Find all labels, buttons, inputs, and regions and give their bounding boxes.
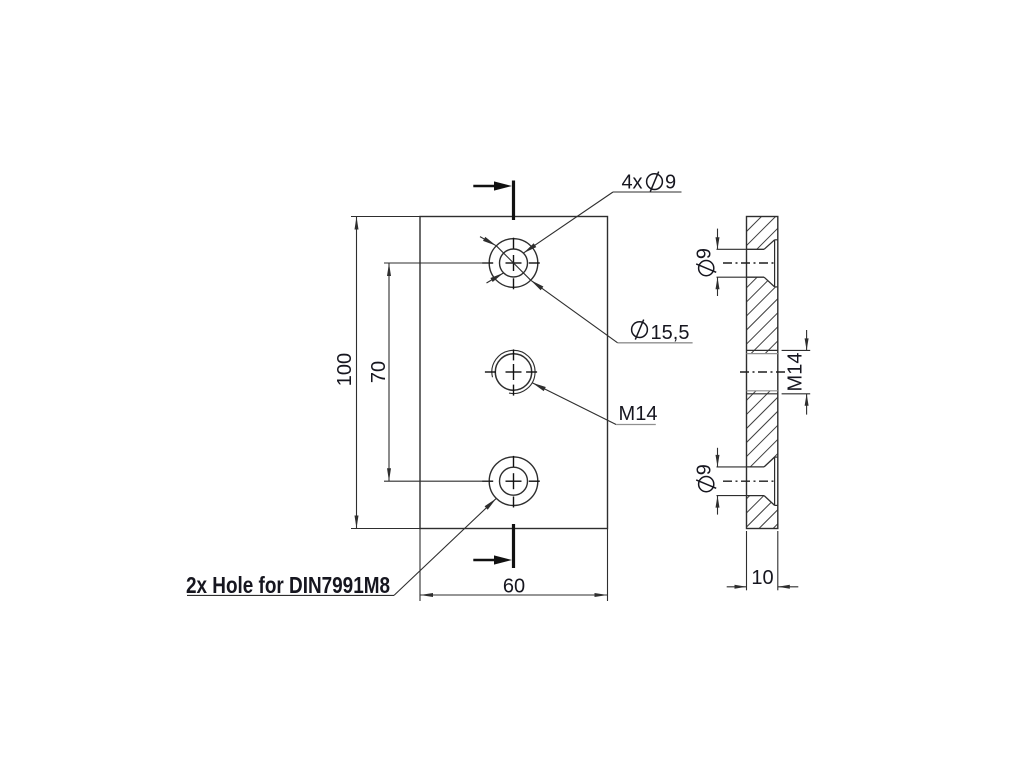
leader 2x hole DIN7991M8 [394,498,496,595]
top hole bore circle d9 [500,249,528,277]
dimension 100 arrow down [355,516,359,529]
dimension M14 side: extension lines [782,349,811,351]
svg-text:60: 60 [503,576,525,598]
leader 2x hole arrow [485,498,497,509]
dimension d9 bottom: dimension line with outside arrows [717,448,719,467]
svg-text:M14: M14 [785,353,807,392]
dimension d15,5 arrow upper-left [483,237,496,246]
side view middle hole centerline [740,371,786,373]
middle hole tap drill circle [495,354,531,390]
dimension 10 arrow right [778,585,790,589]
side view bottom hole bore lines [747,466,765,468]
side view M14 tap drill lines [747,353,778,355]
section cut mark top (thick bar) [512,181,515,221]
diameter symbol of d15,5 [632,320,648,340]
leader M14 front [532,383,616,425]
diameter symbol of 4x d9 [647,172,663,192]
dimension M14 side: dimension line with outside arrows [806,330,808,350]
dimension 100 arrow up [355,217,359,230]
leader 4x d9: dimension line through top hole bore [523,192,613,253]
top hole countersink circle d15.5 [489,239,538,288]
dimension d15,5: line through countersink circle [496,246,530,280]
section view direction arrow bottom [473,559,504,561]
dimension 10 arrow left [735,585,747,589]
side view top hole countersink cone [764,240,775,250]
side view bottom hole countersink cone [764,457,775,467]
svg-text:9: 9 [694,248,716,259]
dimension d9 bottom arrow upper [716,455,720,467]
leader 4x d9 arrow lower [490,273,503,282]
plate outline (front view) [420,217,608,529]
dimension 60 arrow left [420,593,433,597]
dimension 70: extension lines [384,262,489,264]
dimension d15,5 arrow lower-right [531,280,544,290]
dimension d15,5 leader [531,280,618,343]
dimension 70 arrow up [387,263,391,276]
side view top hole bore lines [747,248,765,250]
dimension 60: extension lines [419,529,421,602]
bottom hole countersink circle d15.5 [489,457,538,506]
dimension 60 arrow right [595,593,608,597]
dimension d9 bottom arrow lower [716,496,720,508]
hatching of section [438,200,1024,540]
leader 4x d9 arrow upper [523,243,536,253]
section cut mark bottom (thick bar) [512,524,515,568]
dimension d9 bottom: extension lines [717,466,747,468]
middle hole thread major arc (3/4 circle) [492,350,535,393]
dimension d9 top: dimension line with outside arrows [717,229,719,250]
svg-text:10: 10 [751,567,773,589]
svg-text:100: 100 [334,353,356,386]
leader M14 arrow [532,383,546,391]
svg-text:4x: 4x [621,172,642,194]
svg-text:2x Hole for DIN7991M8: 2x Hole for DIN7991M8 [186,572,390,598]
middle hole center mark [485,349,537,395]
dimension M14 arrow lower [805,394,809,406]
svg-text:9: 9 [665,172,676,194]
svg-text:15,5: 15,5 [651,322,690,344]
dimension d9 top arrow upper [716,237,720,249]
dimension 60: dimension line [420,594,608,596]
side view M14 thread major lines [747,349,778,351]
top hole center mark [482,238,540,290]
svg-text:9: 9 [694,464,716,475]
dimension 100: extension lines [351,216,422,218]
bottom hole center mark [482,456,540,508]
side view top hole countersink cylinder [774,240,776,287]
dimension 70: dimension line [388,263,390,481]
dimension 100: dimension line [356,217,358,529]
dimension d9 top arrow lower [716,277,720,289]
dimension M14 arrow upper [805,338,809,350]
dimension d9 top: extension lines [717,248,747,250]
dimension 10: extension lines [746,531,748,590]
dimension 10: dimension line with outside arrows [727,586,747,588]
svg-text:70: 70 [368,361,390,383]
side view bottom hole countersink cylinder [774,457,776,505]
bottom hole bore circle d9 [500,467,528,495]
side view bottom hole centerline [723,480,776,482]
side view top hole centerline [723,262,776,264]
side view plate outline [747,217,778,529]
section view direction arrow top [473,185,504,187]
svg-text:M14: M14 [619,403,658,425]
dimension 70 arrow down [387,468,391,481]
